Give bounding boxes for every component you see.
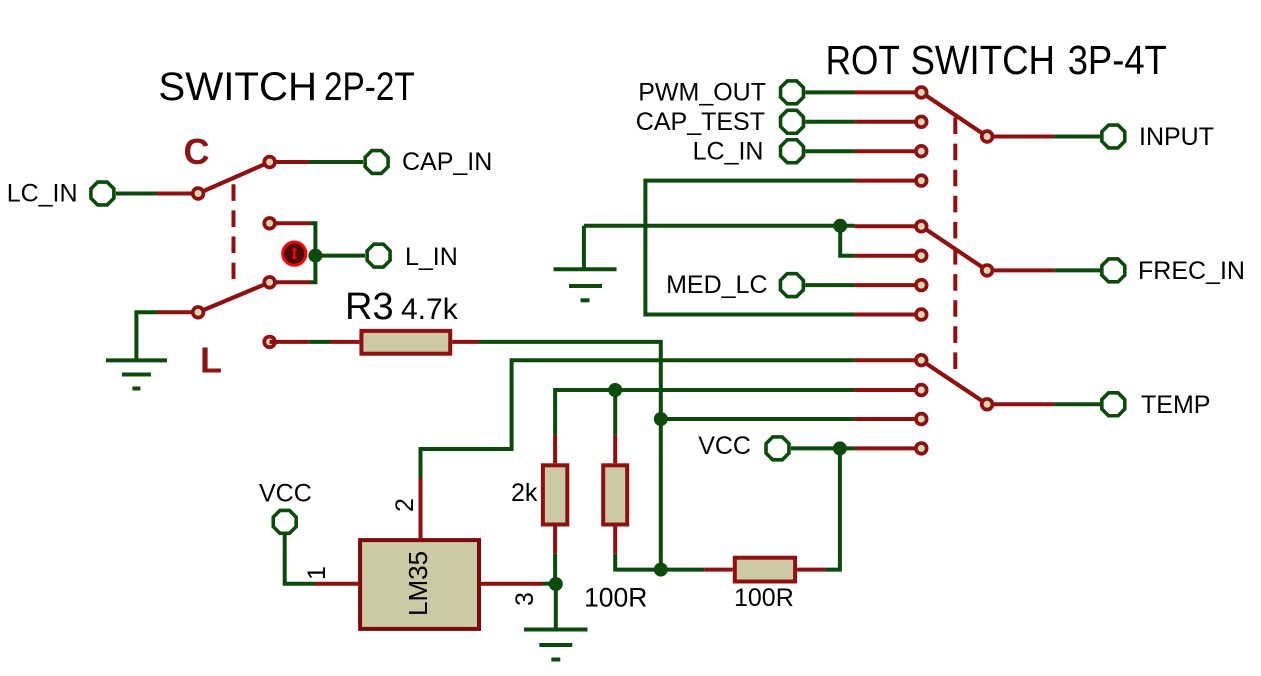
rotary arm bank3 (921, 360, 987, 404)
junction VCC column (833, 441, 847, 455)
pin lead throw C (red) (270, 160, 309, 164)
wire to INPUT terminal (green) (1054, 135, 1100, 139)
wire 100Rv bottom to row (green) (615, 554, 704, 570)
svg-text:INPUT: INPUT (1139, 123, 1214, 151)
pin SW2 bank1 pin1 (914, 85, 928, 99)
pin SW2 bank3 pin4 (914, 441, 928, 455)
svg-text:SWITCH: SWITCH (911, 37, 1056, 83)
junction R3 column lower (654, 563, 668, 577)
wire 2k bottom to junction (green) (553, 554, 557, 584)
wire MED_LC to pin (green) (805, 283, 854, 287)
svg-text:2k: 2k (511, 479, 538, 507)
svg-text:LC_IN: LC_IN (693, 138, 764, 166)
common pin bank2 (980, 263, 994, 277)
pin throw C (262, 155, 276, 169)
svg-text:SWITCH: SWITCH (158, 65, 317, 109)
2k top lead (red) (553, 435, 557, 464)
svg-text:R3: R3 (345, 286, 394, 328)
junction R3 column upper (654, 412, 668, 426)
svg-text:C: C (184, 131, 210, 172)
2k bottom lead (red) (553, 527, 557, 554)
svg-text:VCC: VCC (259, 480, 312, 508)
wire junction down to bank2 pin2 (green) (840, 226, 854, 256)
LM35 pin3 lead (red) (481, 582, 543, 586)
pin lead SW2 bank2 pin3 (red) (855, 283, 915, 287)
terminal LC_IN right (781, 140, 804, 163)
rotary arm bank1 (921, 92, 987, 136)
wire throw C to CAP_IN (green) (309, 160, 363, 164)
wire VCC right to pin (green) (791, 446, 855, 450)
svg-text:VCC: VCC (698, 432, 751, 460)
common pin lead INPUT (red) (987, 135, 1054, 139)
wire 100Rv top (green) (613, 390, 617, 435)
pin lead pole2 (red) (157, 310, 198, 314)
switch arm pole1-throw C (198, 162, 270, 194)
pin lead SW2 bank1 pin3 (red) (855, 149, 915, 153)
resistor R3 body (361, 331, 450, 354)
wire R3 to rotary (green) (479, 342, 661, 570)
terminal L_IN (367, 244, 390, 267)
pin lead SW2 bank2 pin1 (red) (855, 224, 915, 228)
pin SW2 bank1 pin4 (914, 173, 928, 187)
common pin bank1 (980, 129, 994, 143)
svg-text:3: 3 (511, 592, 539, 606)
terminal FREC_IN (1102, 259, 1125, 282)
junction LM35 pin3 (549, 577, 563, 591)
terminal CAP_IN (365, 151, 388, 174)
pin SW2 bank3 pin1 (914, 353, 928, 367)
resistor R3 lead left (red) (270, 340, 310, 344)
pin pole1 (191, 186, 205, 200)
svg-text:LC_IN: LC_IN (7, 180, 78, 208)
switch arm pole2-throw C2 (198, 282, 270, 312)
LM35 pin2 stub (red) (419, 478, 423, 538)
pin throw L (262, 216, 276, 230)
100R horizontal right lead (red) (797, 568, 826, 572)
svg-text:ROT: ROT (826, 37, 900, 83)
svg-text:3P-4T: 3P-4T (1068, 37, 1167, 83)
svg-text:CAP_TEST: CAP_TEST (636, 108, 765, 136)
common pin bank3 (980, 397, 994, 411)
svg-text:L_IN: L_IN (405, 243, 458, 271)
pin lead throw L (red) (270, 221, 311, 225)
junction bank2 pin1 (833, 219, 847, 233)
pin lead SW2 bank1 pin2 (red) (855, 120, 915, 124)
wire bank3 pin3 row (green) (661, 417, 855, 421)
pin SW2 bank2 pin2 (914, 249, 928, 263)
resistor 2k body (543, 465, 567, 524)
wire pin3 to junction (green) (543, 582, 556, 586)
junction 2k row (608, 383, 622, 397)
terminal CAP_TEST (781, 110, 804, 133)
svg-text:LM35: LM35 (403, 551, 433, 616)
wire junction to L_IN (green) (315, 254, 365, 258)
pin SW2 bank2 pin1 (914, 219, 928, 233)
wire VCC to LM35 pin1 (green) (285, 535, 315, 584)
pin SW2 bank1 pin3 (914, 144, 928, 158)
common pin lead FREC_IN (red) (987, 268, 1054, 272)
svg-text:TEMP: TEMP (1141, 391, 1210, 419)
wire junction to ground (green) (554, 584, 558, 628)
wire throw L corner (green) (311, 223, 316, 282)
common pin lead TEMP (red) (987, 402, 1054, 406)
pin SW2 bank2 pin3 (914, 278, 928, 292)
terminal VCC left (273, 510, 296, 533)
svg-text:2: 2 (391, 498, 419, 512)
pin SW2 bank1 pin2 (914, 115, 928, 129)
pin lead SW2 bank3 pin4 (red) (855, 446, 915, 450)
terminal LC_IN left (91, 182, 114, 205)
resistor 100R horizontal body (735, 558, 795, 582)
pin lead SW2 bank3 pin2 (red) (855, 388, 915, 392)
LM35 pin1 lead (red) (315, 582, 358, 586)
mechanical link dashed (rotary) (953, 118, 957, 379)
terminal VCC right (766, 437, 789, 460)
ground (middle) (554, 226, 617, 300)
pin SW2 bank2 pin4 (914, 307, 928, 321)
pin throw R3 (262, 335, 276, 349)
terminal MED_LC (780, 274, 803, 297)
LM35 body U1 (360, 540, 479, 629)
terminal INPUT (1102, 125, 1125, 148)
pin SW2 bank3 pin3 (914, 412, 928, 426)
wire to FREC_IN terminal (green) (1054, 268, 1100, 272)
pin lead throw C2 (red) (270, 280, 311, 284)
pin SW2 bank3 pin2 (914, 383, 928, 397)
wire pole2 to ground (green) (136, 312, 157, 358)
wire bank1 pin4 to bank2 pin4 (green) (645, 181, 854, 315)
pin lead SW2 bank3 pin1 (red) (855, 358, 915, 362)
pin pole2 (191, 305, 205, 319)
svg-text:100R: 100R (584, 583, 647, 613)
svg-text:L: L (200, 340, 222, 381)
mechanical link dashed (left switch) (232, 184, 236, 279)
wire CAP_TEST (green) (805, 120, 854, 124)
wire 2k top to row (green) (555, 390, 855, 435)
pin lead SW2 bank2 pin4 (red) (855, 313, 915, 317)
svg-text:PWM_OUT: PWM_OUT (638, 79, 766, 107)
rotary arm bank2 (921, 226, 987, 270)
wire LC_IN right (green) (805, 149, 854, 153)
wire PWM_OUT (green) (805, 90, 854, 94)
wire to TEMP terminal (green) (1054, 402, 1100, 406)
resistor 100R vertical body (603, 465, 627, 524)
pin lead SW2 bank1 pin1 (red) (855, 90, 915, 94)
ground (left) (106, 360, 167, 388)
pin lead pole1 (red) (157, 192, 199, 196)
wire R3 left (green) (309, 340, 330, 344)
wire LM35 pin2 to TEMP row (green) (421, 360, 855, 478)
pin lead SW2 bank3 pin3 (red) (855, 417, 915, 421)
wire 100Rh to VCC column (green) (826, 448, 840, 569)
wire LC_IN to pole1 (green) (116, 192, 157, 196)
pin lead SW2 bank1 pin4 (red) (855, 179, 915, 183)
pin throw C2 (262, 275, 276, 289)
junction L_IN (308, 249, 322, 263)
svg-text:CAP_IN: CAP_IN (402, 148, 492, 176)
100Rv bottom lead (red) (613, 527, 617, 554)
pin lead SW2 bank2 pin2 (red) (855, 254, 915, 258)
terminal TEMP (1102, 393, 1125, 416)
wire ground to bank2 pin1 (green) (584, 224, 855, 228)
svg-text:4.7k: 4.7k (401, 293, 459, 326)
svg-text:100R: 100R (734, 584, 794, 612)
terminal PWM_OUT (781, 81, 804, 104)
actuator (toggle symbol) (283, 242, 306, 265)
svg-text:MED_LC: MED_LC (666, 271, 767, 299)
svg-text:2P-2T: 2P-2T (324, 65, 415, 109)
svg-text:FREC_IN: FREC_IN (1138, 257, 1245, 285)
100R horizontal left lead (red) (704, 568, 733, 572)
ground (bottom) (524, 630, 588, 660)
resistor R3 lead right (red) (452, 340, 479, 344)
100Rv top lead (red) (613, 435, 617, 464)
svg-text:1: 1 (303, 566, 331, 580)
resistor R3 lead into body (red) (330, 340, 359, 344)
